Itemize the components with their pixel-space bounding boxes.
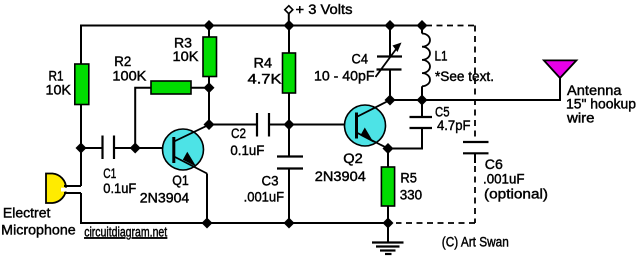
- capacitor C4 (variable): [376, 26, 403, 101]
- svg-text:R1: R1: [49, 68, 64, 83]
- node junction bottom rail C3: [284, 218, 295, 229]
- node junction Q1 collector: [204, 119, 215, 130]
- wire C5 bottom lead: [388, 129, 422, 149]
- node junction Q2 collector: [385, 95, 396, 106]
- power connector diamond: [285, 6, 293, 14]
- dashed box right edge lower: [474, 166, 476, 223]
- resistor R3: [203, 37, 217, 77]
- inductor L1: [422, 26, 430, 101]
- svg-text:(optional): (optional): [484, 187, 548, 202]
- wire R2 left lead: [135, 88, 151, 148]
- svg-text:0.1uF: 0.1uF: [103, 181, 136, 196]
- wire C3 top lead: [288, 125, 290, 157]
- svg-text:L1: L1: [435, 49, 448, 64]
- svg-text:0.1uF: 0.1uF: [230, 143, 264, 158]
- svg-text:4.7pF: 4.7pF: [437, 118, 471, 133]
- node junction bottom rail Q1 emitter: [202, 218, 213, 229]
- wire R3 top lead: [208, 26, 210, 38]
- svg-text:.001uF: .001uF: [244, 189, 285, 204]
- svg-text:(C) Art Swan: (C) Art Swan: [442, 234, 509, 249]
- node junction top rail at R4: [284, 20, 295, 31]
- node junction R1-C1: [76, 143, 87, 154]
- wire top +3V rail: [80, 25, 422, 27]
- svg-text:Microphone: Microphone: [1, 223, 76, 238]
- capacitor C6: [463, 141, 489, 143]
- svg-text:*See text.: *See text.: [435, 69, 494, 84]
- wire R2 right lead: [191, 87, 209, 89]
- svg-text:C6: C6: [485, 157, 503, 172]
- wire R3 bottom lead to collector node: [208, 77, 210, 125]
- node junction R2-R3: [204, 82, 215, 93]
- dashed box bottom edge: [396, 222, 475, 224]
- node junction L1-C5: [417, 95, 428, 106]
- svg-text:R2: R2: [114, 54, 131, 69]
- antenna: [544, 60, 577, 101]
- wire Q1 base lead: [135, 147, 174, 149]
- node junction top rail at C4: [385, 20, 396, 31]
- wire C1 left lead: [81, 147, 102, 149]
- capacitor C3: [277, 155, 303, 157]
- dashed box right edge upper: [474, 26, 476, 140]
- svg-text:wire: wire: [566, 111, 595, 126]
- wire R4 top lead: [288, 26, 290, 54]
- wire R5 bottom lead: [387, 206, 389, 223]
- resistor R1: [75, 64, 89, 105]
- svg-text:2N3904: 2N3904: [140, 191, 190, 206]
- node junction top rail at L1: [417, 20, 428, 31]
- ground: [372, 223, 404, 254]
- svg-text:15" hookup: 15" hookup: [566, 97, 636, 112]
- wire Q2 base lead: [289, 124, 356, 126]
- wire Q1 emitter to ground rail: [206, 174, 208, 224]
- wire C6 bottom stub: [474, 153, 476, 163]
- svg-text:330: 330: [400, 188, 423, 203]
- resistor R4: [283, 53, 296, 93]
- svg-text:100K: 100K: [112, 68, 146, 83]
- svg-text:Q1: Q1: [172, 173, 189, 188]
- node junction bottom rail R5-ground: [383, 218, 394, 229]
- svg-text:10 - 40pF: 10 - 40pF: [314, 68, 375, 83]
- wire C1 right lead: [115, 147, 135, 149]
- svg-text:10K: 10K: [173, 49, 199, 64]
- wire R5 top lead: [387, 149, 389, 168]
- transistor Q1: [163, 125, 209, 174]
- node junction R4-C2: [284, 119, 295, 130]
- svg-text:2N3904: 2N3904: [315, 169, 367, 184]
- electret microphone: [46, 174, 81, 204]
- resistor R5: [381, 167, 394, 206]
- svg-text:4.7K: 4.7K: [248, 72, 282, 87]
- node junction C1-R2: [130, 143, 141, 154]
- capacitor C2: [256, 113, 258, 137]
- resistor R2: [151, 81, 191, 94]
- wire C3 bottom lead: [288, 169, 290, 223]
- capacitor C5: [410, 116, 433, 118]
- svg-text:C3: C3: [262, 174, 279, 189]
- svg-text:C1: C1: [103, 166, 116, 181]
- wire +3V stub: [288, 14, 290, 26]
- wire C5 top lead: [421, 100, 423, 117]
- svg-text:10K: 10K: [46, 82, 72, 97]
- wire collector tank to antenna: [390, 99, 560, 101]
- capacitor C1: [101, 136, 103, 160]
- dashed box top edge: [426, 25, 475, 27]
- wire R4 bottom lead: [288, 93, 290, 125]
- svg-text:Q2: Q2: [343, 151, 363, 166]
- svg-text:C4: C4: [352, 52, 369, 67]
- node junction top rail at R3: [204, 20, 215, 31]
- svg-text:R5: R5: [400, 171, 417, 186]
- wire bottom ground rail: [80, 222, 388, 224]
- svg-text:Electret: Electret: [3, 206, 51, 221]
- node junction Q2 emitter-R5: [383, 143, 394, 154]
- wire left branch vertical lower: [80, 193, 82, 224]
- svg-text:R4: R4: [254, 55, 273, 70]
- wire C2 right lead: [270, 124, 289, 126]
- wire left branch vertical upper: [80, 25, 82, 187]
- svg-text:circuitdiagram.net: circuitdiagram.net: [84, 224, 167, 239]
- svg-text:.001uF: .001uF: [483, 172, 525, 187]
- svg-text:+ 3 Volts: + 3 Volts: [296, 2, 353, 17]
- wire C2 left lead: [209, 124, 256, 126]
- svg-text:C2: C2: [231, 126, 246, 141]
- transistor Q2: [345, 100, 391, 149]
